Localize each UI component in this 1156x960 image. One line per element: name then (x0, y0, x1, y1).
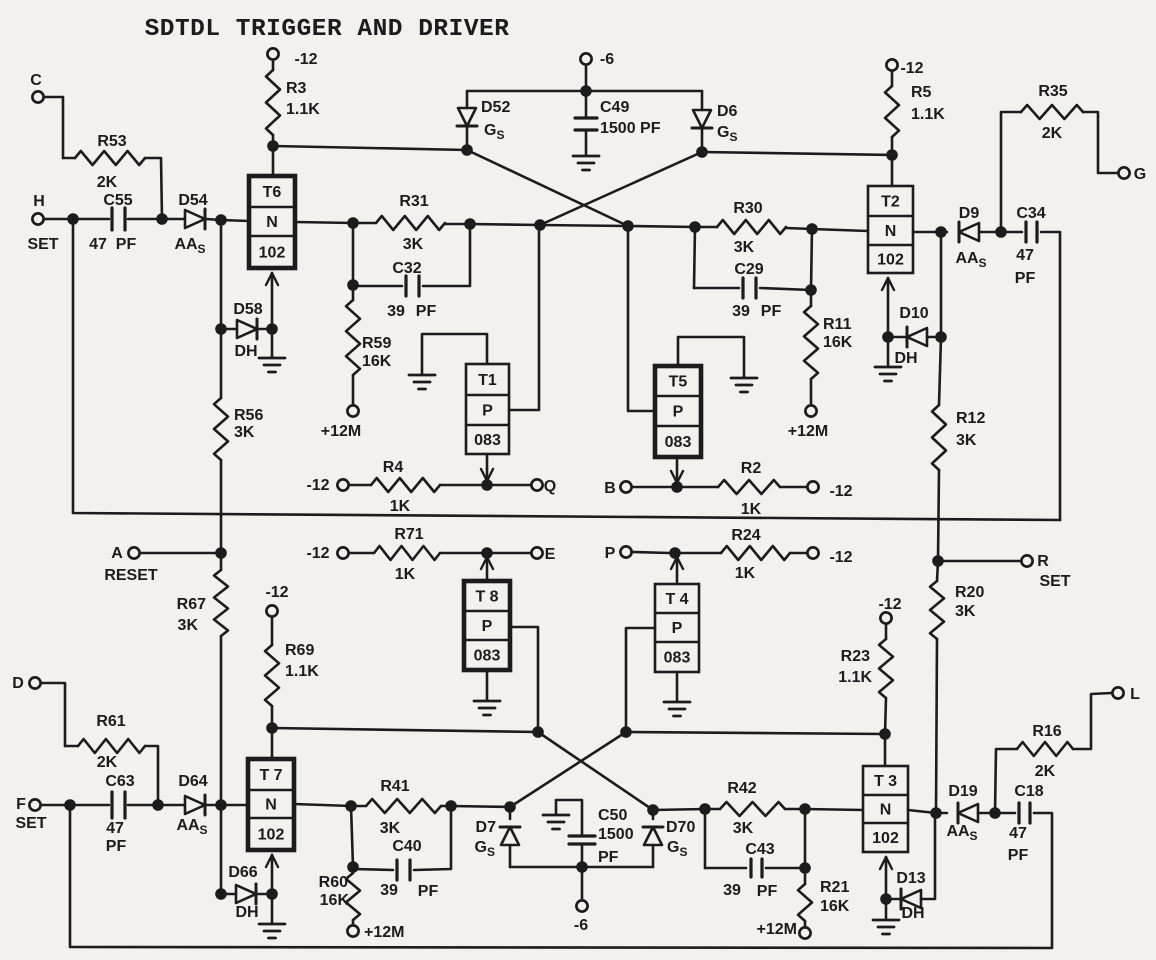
node R5-T2 (886, 149, 898, 161)
ground D13 (873, 899, 899, 934)
svg-text:D9: D9 (959, 205, 980, 222)
svg-text:47: 47 (89, 236, 107, 253)
svg-text:L: L (1130, 686, 1140, 703)
node C55-D54 (156, 213, 168, 225)
ground C50 lead (543, 800, 582, 836)
node X bottom-right (620, 726, 632, 738)
svg-text:39: 39 (387, 303, 405, 320)
wire C43 left leg (705, 809, 746, 868)
svg-text:102: 102 (258, 827, 285, 844)
svg-text:1500 PF: 1500 PF (600, 120, 661, 137)
node C29 left (689, 221, 701, 233)
wire D9 node vert (940, 232, 943, 337)
svg-text:-12: -12 (294, 51, 317, 68)
wire D to R61 (42, 683, 66, 746)
resistor R35 (1001, 83, 1118, 232)
wire P to node (633, 552, 671, 553)
svg-text:1K: 1K (741, 501, 762, 518)
capacitor C43 (723, 841, 777, 900)
transistor T6 (249, 176, 295, 268)
wire X to C29 node (628, 226, 695, 227)
node P (669, 547, 681, 559)
terminal -12 R71 (306, 545, 348, 562)
svg-text:+12M: +12M (757, 921, 797, 938)
diode D70 (643, 810, 695, 867)
diode D9 (955, 205, 986, 270)
svg-text:R5: R5 (911, 84, 932, 101)
wire T2 to D9 node (913, 231, 941, 234)
title (145, 16, 510, 43)
svg-text:R41: R41 (380, 778, 409, 795)
svg-text:2K: 2K (1035, 763, 1056, 780)
resistor R30 (695, 200, 812, 256)
svg-text:N: N (266, 214, 278, 231)
resistor R20 (930, 561, 984, 813)
resistor R71 (350, 526, 531, 583)
terminal -6 bottom (574, 900, 588, 934)
wire T8 arrow to E (481, 557, 493, 581)
terminal -12 R3 (267, 48, 317, 68)
svg-text:P: P (673, 404, 684, 421)
wire C29 right leg (760, 288, 811, 290)
diode D7 (475, 807, 520, 867)
svg-text:C29: C29 (734, 261, 763, 278)
svg-text:1500: 1500 (598, 826, 634, 843)
ground T8 (474, 670, 500, 715)
node C40-R60 (347, 861, 359, 873)
wire to C55 (73, 218, 109, 221)
resistor R42 (705, 780, 805, 837)
diagonal D52 to T5 node (467, 150, 628, 226)
svg-text:47: 47 (1016, 247, 1034, 264)
wire -6 to rail (585, 66, 588, 92)
wire R node to terminal (938, 560, 1021, 563)
svg-text:P: P (482, 403, 493, 420)
svg-text:R21: R21 (820, 879, 849, 896)
transistor T3 (863, 766, 908, 852)
svg-text:P: P (605, 545, 616, 562)
svg-text:F: F (16, 796, 26, 813)
svg-text:D13: D13 (896, 870, 925, 887)
resistor R12 (932, 337, 985, 561)
wire C to R53 (45, 97, 64, 158)
svg-text:PF: PF (757, 883, 778, 900)
ground D10 (875, 337, 901, 381)
svg-text:16K: 16K (320, 892, 350, 909)
wire F to junction (42, 804, 66, 807)
svg-text:R: R (1037, 553, 1049, 570)
svg-text:3K: 3K (956, 432, 977, 449)
diode D64 (176, 773, 207, 837)
svg-text:R2: R2 (741, 460, 762, 477)
svg-text:PF: PF (1008, 847, 1029, 864)
node H junction (67, 213, 79, 225)
svg-text:3K: 3K (403, 236, 424, 253)
svg-text:Q: Q (544, 478, 556, 495)
svg-text:D19: D19 (948, 783, 977, 800)
svg-text:083: 083 (474, 432, 501, 449)
wire D66 to node (257, 893, 272, 896)
node R31-C32 (464, 218, 476, 230)
wire node to T6 (221, 220, 249, 221)
resistor R53 (63, 133, 162, 219)
terminal -6 top (580, 51, 614, 68)
svg-text:D6: D6 (717, 103, 738, 120)
node C63-D64 (152, 799, 164, 811)
terminal -12 R4 (306, 477, 348, 494)
capacitor C40 (380, 838, 438, 900)
svg-text:+12M: +12M (321, 423, 361, 440)
transistor T2 (868, 186, 913, 273)
node T3-D19 (930, 807, 942, 819)
terminal +12M R11 (788, 405, 828, 440)
wire to T2 (812, 229, 868, 231)
node T2-D9 (935, 226, 947, 238)
diode D10 (888, 305, 929, 367)
svg-text:D: D (12, 675, 24, 692)
wire T6 to R31 node (295, 222, 353, 223)
diode D19 (946, 783, 978, 843)
wire T5 P lead (628, 226, 655, 411)
node R69-T7 (266, 722, 278, 734)
wire R41 node to D7 node (451, 806, 510, 807)
svg-text:C40: C40 (392, 838, 421, 855)
wire C29 left leg (694, 227, 739, 288)
transistor T5 (655, 366, 701, 457)
svg-text:T2: T2 (881, 194, 900, 211)
wire T1 P lead (509, 225, 539, 410)
svg-text:PF: PF (116, 236, 137, 253)
svg-text:T1: T1 (478, 372, 497, 389)
svg-text:-12: -12 (306, 477, 329, 494)
wire R3 node to D52 (273, 146, 467, 150)
svg-text:+12M: +12M (788, 423, 828, 440)
svg-text:T 3: T 3 (874, 773, 897, 790)
node T7-R41 (345, 800, 357, 812)
wire D58 to node (258, 328, 272, 331)
svg-text:1K: 1K (395, 566, 416, 583)
svg-text:39: 39 (380, 882, 398, 899)
resistor R5 (885, 72, 945, 156)
wire to D19 (936, 812, 947, 815)
svg-text:3K: 3K (380, 820, 401, 837)
svg-text:2K: 2K (97, 174, 118, 191)
transistor T4 (655, 584, 699, 672)
node D13 left (880, 893, 892, 905)
svg-text:C43: C43 (745, 841, 774, 858)
svg-text:R12: R12 (956, 410, 985, 427)
wire D58 left lead (221, 328, 237, 331)
capacitor C63 (105, 773, 134, 855)
wire mid bus (73, 219, 1060, 520)
wire R5 node to T2 (891, 155, 894, 186)
wire C55 to node (128, 218, 158, 221)
diode D54 (174, 192, 207, 256)
svg-text:-12: -12 (265, 584, 288, 601)
svg-text:DH: DH (894, 350, 917, 367)
svg-text:A: A (111, 545, 123, 562)
wire R3 node to T6 (272, 146, 275, 176)
terminal B (604, 480, 631, 497)
svg-text:T 7: T 7 (259, 767, 282, 784)
svg-text:C63: C63 (105, 773, 134, 790)
wire node to T7 (221, 804, 248, 807)
svg-text:3K: 3K (733, 820, 754, 837)
svg-text:083: 083 (664, 650, 691, 667)
diode D66 (228, 864, 258, 921)
svg-text:C: C (30, 72, 42, 89)
wire to D9 (941, 231, 947, 234)
wire D13 to vert (921, 813, 935, 899)
svg-text:R56: R56 (234, 407, 263, 424)
svg-text:-12: -12 (878, 596, 901, 613)
svg-text:R3: R3 (286, 80, 307, 97)
svg-text:39: 39 (723, 882, 741, 899)
wire D6 to R5 node (702, 152, 892, 155)
wire T4 arrow to P (671, 557, 683, 584)
diagonal X bl to D70 (538, 732, 653, 810)
svg-text:D54: D54 (178, 192, 207, 209)
svg-text:R71: R71 (394, 526, 423, 543)
node C43-R21 (799, 862, 811, 874)
node X left-lower (534, 219, 546, 231)
svg-text:R35: R35 (1038, 83, 1067, 100)
wire D19 to node (978, 812, 995, 815)
resistor R69 (265, 618, 319, 729)
terminal C (30, 72, 43, 103)
resistor R41 (351, 778, 451, 837)
svg-text:G: G (1134, 166, 1146, 183)
svg-text:R20: R20 (955, 584, 984, 601)
transistor T8 (464, 581, 510, 670)
svg-text:T6: T6 (263, 184, 282, 201)
svg-text:-6: -6 (574, 917, 588, 934)
svg-text:R59: R59 (362, 335, 391, 352)
svg-text:R60: R60 (319, 874, 348, 891)
svg-text:1.1K: 1.1K (285, 663, 319, 680)
wire X node to T5 node (540, 225, 628, 226)
wire to C32 (353, 285, 402, 288)
wire -6 rail (467, 90, 702, 93)
svg-text:2K: 2K (1042, 125, 1063, 142)
wire R31 node to X node (470, 224, 540, 225)
svg-text:102: 102 (872, 830, 899, 847)
wire R69 node to X (272, 728, 538, 732)
wire T7 to R41 node (294, 804, 351, 806)
svg-text:R67: R67 (177, 596, 206, 613)
node T6-R31 (347, 217, 359, 229)
wire C43 node up (804, 809, 807, 868)
wire C32 right leg (423, 224, 470, 286)
node C50 bottom (576, 861, 588, 873)
wire C32 left leg (352, 223, 355, 285)
wire T1 collector arrow (481, 454, 493, 481)
svg-text:C49: C49 (600, 99, 629, 116)
svg-text:D52: D52 (481, 99, 510, 116)
node D54-T6 (215, 214, 227, 226)
svg-text:47: 47 (1009, 825, 1027, 842)
wire vert D54node to D58 (220, 220, 223, 329)
svg-text:2K: 2K (97, 754, 118, 771)
capacitor C34 (1001, 205, 1060, 520)
wire C50 bottom row (510, 866, 653, 869)
wire D10 to node (927, 336, 941, 339)
terminal G (1118, 166, 1146, 183)
resistor R61 (65, 713, 158, 805)
svg-text:47: 47 (106, 820, 124, 837)
node R42 left (699, 803, 711, 815)
svg-text:39: 39 (732, 303, 750, 320)
terminal E (531, 546, 555, 563)
wire bottom bus (70, 805, 1052, 948)
svg-text:C50: C50 (598, 807, 627, 824)
resistor R23 (838, 625, 893, 735)
wire T3 emitter arrow (880, 857, 892, 899)
svg-text:-6: -6 (600, 51, 614, 68)
ground D58 (259, 329, 285, 372)
svg-text:P: P (672, 620, 683, 637)
wire to C40 (353, 869, 393, 870)
node D66 right (266, 888, 278, 900)
svg-text:D10: D10 (899, 305, 928, 322)
svg-text:PF: PF (418, 883, 439, 900)
svg-text:DH: DH (235, 904, 258, 921)
svg-text:T 8: T 8 (475, 589, 498, 606)
node A-R56-R67 (215, 547, 227, 559)
node D52 (461, 144, 473, 156)
svg-text:R53: R53 (97, 133, 126, 150)
node E (481, 547, 493, 559)
svg-text:+12M: +12M (364, 924, 404, 941)
resistor R3 (266, 61, 320, 147)
wire T8 P lead (510, 627, 538, 732)
svg-text:-12: -12 (829, 549, 852, 566)
svg-text:1K: 1K (390, 498, 411, 515)
svg-text:SET: SET (1039, 573, 1070, 590)
node C29-R11 (805, 284, 817, 296)
terminal -12 R23 (878, 596, 901, 624)
svg-text:R23: R23 (841, 648, 870, 665)
wire D54 to node (206, 219, 221, 220)
node D10 left (882, 331, 894, 343)
resistor R59 (346, 285, 392, 405)
resistor R67 (177, 553, 228, 805)
wire B to node (633, 486, 673, 489)
capacitor C18 (995, 783, 1052, 947)
resistor R4 (350, 459, 531, 515)
svg-text:R11: R11 (823, 316, 852, 333)
svg-text:RESET: RESET (104, 567, 158, 584)
svg-text:R4: R4 (383, 459, 404, 476)
wire A to node (141, 552, 222, 555)
node R4-Q (481, 479, 493, 491)
svg-text:R69: R69 (285, 642, 314, 659)
wire H to junction (45, 218, 68, 221)
diode D58 (233, 301, 262, 360)
resistor R16 (995, 693, 1112, 813)
node D58 right (266, 323, 278, 335)
svg-text:16K: 16K (823, 334, 853, 351)
svg-text:3K: 3K (178, 617, 199, 634)
node C32-R59 (347, 279, 359, 291)
wire T7 emitter arrow (266, 855, 278, 894)
node R30-T2 (806, 223, 818, 235)
svg-text:R31: R31 (399, 193, 428, 210)
svg-text:1.1K: 1.1K (838, 669, 872, 686)
node F junction (64, 799, 76, 811)
wire C50 to -6 (581, 867, 584, 900)
svg-text:R24: R24 (731, 527, 760, 544)
svg-text:D58: D58 (233, 301, 262, 318)
capacitor C32 (387, 260, 436, 320)
svg-text:PF: PF (1015, 270, 1036, 287)
svg-text:R16: R16 (1032, 723, 1061, 740)
terminal F SET (15, 796, 46, 832)
node D6 (696, 146, 708, 158)
terminal -12 R2 (807, 481, 852, 500)
resistor R24 (675, 527, 807, 582)
svg-text:D70: D70 (666, 819, 695, 836)
terminal -12 R5 (886, 59, 923, 77)
svg-text:C34: C34 (1016, 205, 1045, 222)
diagonal D6 to T1 node (540, 152, 702, 225)
node -6 rail (580, 85, 592, 97)
terminal +12M R21 (757, 921, 811, 939)
wire T3 to D19 node (908, 810, 936, 813)
svg-text:PF: PF (761, 303, 782, 320)
wire D66 left lead (221, 893, 236, 896)
svg-text:PF: PF (106, 838, 127, 855)
wire R11 to row (811, 229, 812, 290)
transistor T7 (248, 759, 294, 850)
svg-text:R61: R61 (96, 713, 125, 730)
resistor R11 (804, 290, 853, 405)
svg-text:P: P (482, 618, 493, 635)
diagonal X br to D7 (510, 732, 626, 807)
wire to C63 (70, 804, 109, 807)
svg-text:D7: D7 (476, 819, 497, 836)
node R23-T3 (879, 728, 891, 740)
svg-text:D66: D66 (228, 864, 257, 881)
terminal -12 R69 (265, 584, 288, 617)
capacitor C29 (732, 261, 781, 320)
wire T7 top lead (271, 728, 274, 759)
node D66 left (215, 888, 227, 900)
terminal D (12, 675, 40, 692)
svg-text:3K: 3K (955, 603, 976, 620)
svg-text:H: H (33, 193, 45, 210)
svg-text:T 4: T 4 (665, 591, 688, 608)
diode D6 (692, 91, 738, 152)
svg-text:PF: PF (416, 303, 437, 320)
svg-text:083: 083 (665, 434, 692, 451)
terminal H SET (27, 193, 58, 253)
svg-text:1K: 1K (735, 565, 756, 582)
wire T2 emitter arrow (882, 278, 894, 337)
svg-text:B: B (604, 480, 616, 497)
wire to D64 (158, 804, 184, 807)
svg-text:3K: 3K (734, 239, 755, 256)
svg-text:3K: 3K (234, 424, 255, 441)
svg-text:DH: DH (901, 905, 924, 922)
capacitor C49 (573, 91, 661, 170)
svg-text:SDTDL TRIGGER AND DRIVER: SDTDL TRIGGER AND DRIVER (145, 16, 510, 43)
svg-text:-12: -12 (306, 545, 329, 562)
terminal +12M R60 (347, 924, 404, 941)
svg-text:N: N (880, 802, 892, 819)
node D10 right (935, 331, 947, 343)
node D7 top (504, 801, 516, 813)
